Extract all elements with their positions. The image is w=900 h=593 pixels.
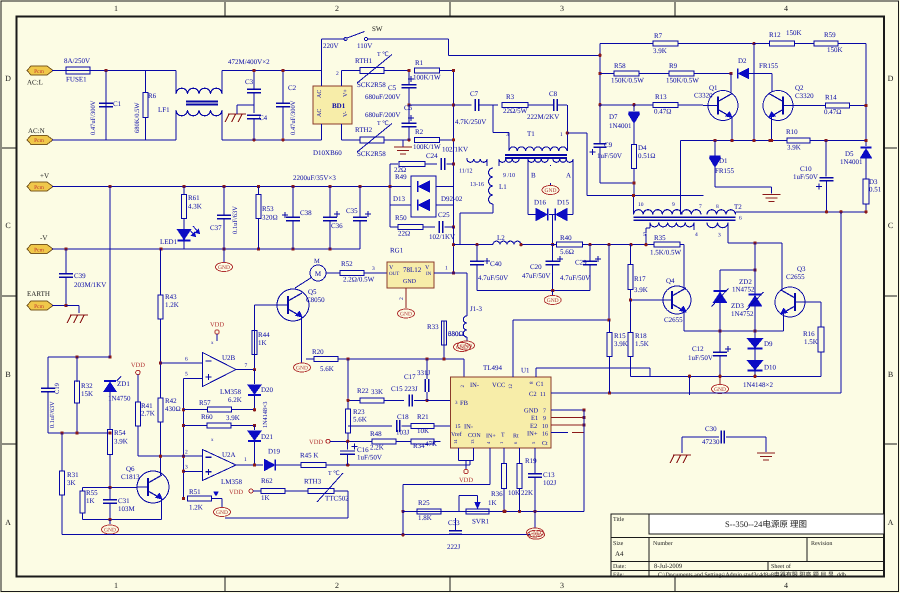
svg-text:D5: D5 bbox=[845, 150, 854, 158]
diode D5 bbox=[840, 148, 872, 179]
svg-text:Q3: Q3 bbox=[797, 265, 806, 273]
wire bbox=[493, 105, 587, 196]
svg-text:B: B bbox=[888, 370, 893, 379]
port -V bbox=[27, 234, 53, 254]
svg-text:T: T bbox=[501, 433, 505, 439]
svg-text:M: M bbox=[315, 270, 322, 278]
svg-text:2.7K: 2.7K bbox=[141, 410, 155, 418]
svg-text:1N4001: 1N4001 bbox=[609, 122, 632, 130]
power ground GND bbox=[102, 520, 119, 535]
svg-text:R55: R55 bbox=[86, 489, 98, 497]
svg-text:C2655: C2655 bbox=[786, 273, 805, 281]
svg-text:100K/1W: 100K/1W bbox=[413, 143, 441, 151]
svg-text:-V: -V bbox=[40, 234, 47, 242]
svg-text:SCK2R58: SCK2R58 bbox=[357, 150, 386, 158]
svg-text:C1: C1 bbox=[113, 100, 122, 108]
transistor Q3 bbox=[775, 265, 806, 317]
resistor R54 bbox=[108, 429, 128, 488]
capacitor C9 bbox=[590, 105, 622, 183]
svg-text:U1: U1 bbox=[521, 367, 530, 375]
power ground GND bbox=[712, 385, 729, 394]
resistor R31 bbox=[60, 433, 80, 535]
svg-text:47230: 47230 bbox=[702, 438, 720, 446]
svg-text:R15: R15 bbox=[614, 332, 626, 340]
svg-text:1N4750: 1N4750 bbox=[108, 395, 131, 403]
svg-text:1K: 1K bbox=[86, 497, 95, 505]
svg-text:R31: R31 bbox=[67, 471, 79, 479]
resistor R22 bbox=[346, 387, 404, 403]
wire bbox=[306, 358, 314, 360]
svg-text:C31: C31 bbox=[118, 497, 130, 505]
svg-text:680uF/200V: 680uF/200V bbox=[365, 111, 400, 119]
svg-text:Q4: Q4 bbox=[666, 277, 675, 285]
resistor R20 bbox=[312, 348, 464, 373]
svg-text:D16: D16 bbox=[534, 199, 547, 207]
zener ZD1 bbox=[104, 377, 131, 430]
resistor R21 bbox=[411, 413, 451, 435]
resistor R45 bbox=[300, 452, 470, 468]
wire -V rail bbox=[52, 247, 360, 250]
capacitor C33 bbox=[447, 518, 462, 551]
svg-text:D: D bbox=[5, 74, 11, 83]
ground bbox=[394, 140, 412, 154]
svg-text:1N4752: 1N4752 bbox=[731, 310, 754, 318]
svg-text:Pcm: Pcm bbox=[34, 247, 45, 253]
capacitor C30 bbox=[682, 425, 766, 453]
resistor D3 bbox=[863, 178, 882, 212]
wire bbox=[864, 44, 867, 146]
svg-text:22Ω: 22Ω bbox=[398, 230, 410, 238]
wire bbox=[399, 288, 406, 308]
svg-text:110V: 110V bbox=[357, 42, 372, 50]
port +V bbox=[27, 172, 53, 191]
power ground GND bbox=[527, 528, 544, 537]
capacitor C24 bbox=[426, 146, 468, 170]
svg-text:R1: R1 bbox=[415, 59, 424, 67]
svg-text:C: C bbox=[5, 221, 10, 230]
svg-text:1uF/50V: 1uF/50V bbox=[597, 152, 622, 160]
wire +V rail bbox=[52, 185, 390, 188]
svg-text:B: B bbox=[5, 370, 10, 379]
svg-text:1: 1 bbox=[560, 132, 563, 138]
svg-text:Ct: Ct bbox=[542, 441, 548, 447]
resistor R1 bbox=[413, 59, 454, 82]
svg-text:Pcm: Pcm bbox=[34, 185, 45, 191]
svg-text:D9: D9 bbox=[764, 340, 773, 348]
svg-text:2: 2 bbox=[399, 297, 405, 300]
svg-text:3K: 3K bbox=[67, 479, 76, 487]
wire bbox=[840, 212, 842, 393]
svg-text:12: 12 bbox=[508, 384, 514, 390]
svg-text:GND: GND bbox=[529, 531, 541, 537]
svg-text:8A/250V: 8A/250V bbox=[64, 57, 90, 65]
wire bbox=[403, 448, 490, 535]
resistor R17 bbox=[628, 245, 648, 300]
svg-text:3.9K: 3.9K bbox=[114, 438, 128, 446]
capacitor C19 bbox=[41, 383, 61, 433]
power VDD bbox=[229, 489, 253, 496]
wire pin2 bbox=[138, 455, 203, 457]
earth ground bbox=[67, 315, 88, 323]
svg-text:7: 7 bbox=[699, 204, 702, 210]
wire bbox=[409, 104, 454, 106]
svg-text:2: 2 bbox=[335, 581, 339, 590]
svg-text:R43: R43 bbox=[165, 293, 177, 301]
svg-text:C9: C9 bbox=[604, 141, 613, 149]
svg-text:C1813: C1813 bbox=[121, 473, 140, 481]
svg-text:R22: R22 bbox=[357, 387, 369, 395]
wire bbox=[694, 72, 733, 75]
svg-text:8-Jul-2009: 8-Jul-2009 bbox=[654, 563, 682, 570]
svg-text:R13: R13 bbox=[655, 93, 667, 101]
svg-text:3: 3 bbox=[506, 132, 509, 138]
svg-text:3.9K: 3.9K bbox=[226, 414, 240, 422]
resistor R59 bbox=[814, 31, 866, 54]
resistor R36 bbox=[491, 448, 520, 511]
junction bbox=[104, 69, 107, 72]
svg-text:Q5: Q5 bbox=[308, 288, 317, 296]
svg-text:FUSE1: FUSE1 bbox=[66, 76, 87, 84]
svg-text:GND: GND bbox=[456, 345, 468, 351]
svg-text:150K/0.5W: 150K/0.5W bbox=[666, 77, 699, 85]
svg-text:A: A bbox=[566, 172, 571, 180]
transistor Q2 bbox=[763, 84, 814, 121]
capacitor C7 bbox=[455, 90, 498, 126]
svg-text:1: 1 bbox=[499, 442, 504, 444]
wire bbox=[681, 139, 787, 142]
svg-text:U2B: U2B bbox=[222, 354, 236, 362]
svg-text:D1: D1 bbox=[719, 157, 728, 165]
svg-text:VDD: VDD bbox=[459, 477, 473, 484]
wire bbox=[629, 298, 663, 301]
port AC:L bbox=[27, 66, 53, 87]
svg-text:0.1uF/63V: 0.1uF/63V bbox=[49, 401, 56, 428]
wire bbox=[608, 245, 610, 320]
capacitor C31 bbox=[103, 488, 136, 520]
svg-text:D13: D13 bbox=[393, 195, 406, 203]
resistor R33 bbox=[427, 321, 464, 361]
svg-text:OUT: OUT bbox=[389, 271, 399, 277]
svg-text:3.9K: 3.9K bbox=[634, 286, 648, 294]
svg-text:4.7uF/50V: 4.7uF/50V bbox=[478, 274, 508, 282]
wire bbox=[48, 355, 110, 388]
wire bbox=[720, 268, 757, 271]
resistor R13 bbox=[600, 93, 703, 116]
svg-text:IN: IN bbox=[426, 271, 432, 277]
capacitor C38 bbox=[282, 187, 312, 250]
svg-text:R59: R59 bbox=[824, 31, 836, 39]
svg-text:R36: R36 bbox=[491, 490, 503, 498]
wire pin3 bbox=[184, 470, 203, 472]
svg-text:T1: T1 bbox=[527, 130, 535, 138]
svg-text:L2: L2 bbox=[497, 234, 505, 242]
svg-text:R20: R20 bbox=[312, 348, 324, 356]
svg-text:Pcm: Pcm bbox=[34, 69, 45, 75]
capacitor C25 bbox=[429, 211, 455, 241]
svg-text:1.5K/0.5W: 1.5K/0.5W bbox=[650, 249, 682, 257]
svg-text:EARTH: EARTH bbox=[27, 290, 50, 298]
svg-text:BD1: BD1 bbox=[332, 102, 346, 110]
svg-text:D: D bbox=[888, 74, 894, 83]
svg-text:GND: GND bbox=[714, 387, 726, 393]
svg-text:7: 7 bbox=[543, 409, 546, 415]
diode D20 bbox=[248, 370, 274, 428]
svg-text:10K: 10K bbox=[417, 427, 429, 435]
svg-text:Q6: Q6 bbox=[126, 465, 135, 473]
svg-text:C10: C10 bbox=[800, 165, 812, 173]
thermistor RTH1 bbox=[341, 51, 409, 89]
wire bbox=[549, 215, 556, 247]
wire bbox=[449, 54, 601, 56]
junction bbox=[281, 69, 284, 142]
resistor R50 bbox=[390, 214, 435, 238]
wire pin5 bbox=[184, 378, 203, 380]
svg-text:15: 15 bbox=[455, 424, 461, 430]
inductor LF1 bbox=[158, 71, 222, 140]
svg-text:C18: C18 bbox=[397, 413, 409, 421]
svg-text:J1-3: J1-3 bbox=[470, 305, 483, 313]
svg-text:C17: C17 bbox=[404, 373, 416, 381]
svg-text:C25: C25 bbox=[438, 211, 450, 219]
svg-text:R54: R54 bbox=[114, 429, 126, 437]
svg-text:Vref: Vref bbox=[451, 431, 462, 438]
wire Q6 collector bbox=[159, 455, 162, 476]
wire bbox=[680, 245, 684, 288]
capacitor C15 bbox=[391, 385, 429, 406]
diode D15 bbox=[555, 199, 573, 221]
svg-text:Number: Number bbox=[653, 540, 673, 547]
svg-text:Date:: Date: bbox=[613, 564, 626, 570]
wire bbox=[600, 181, 636, 195]
svg-text:9: 9 bbox=[543, 416, 546, 422]
resistor R40 bbox=[557, 234, 648, 256]
wire bbox=[730, 74, 732, 93]
svg-text:RTH3: RTH3 bbox=[304, 478, 322, 486]
svg-text:1K: 1K bbox=[488, 499, 497, 507]
svg-text:R9: R9 bbox=[669, 62, 678, 70]
svg-text:150K: 150K bbox=[786, 29, 802, 37]
svg-text:R7: R7 bbox=[654, 32, 663, 40]
svg-text:R45 K: R45 K bbox=[300, 452, 318, 460]
svg-text:FB: FB bbox=[460, 400, 469, 407]
svg-text:R21: R21 bbox=[417, 413, 429, 421]
wire bbox=[680, 141, 682, 196]
diode LED1 bbox=[160, 219, 200, 250]
bridge rectifier BD1 bbox=[313, 86, 352, 157]
svg-text:1.2K: 1.2K bbox=[189, 504, 203, 512]
svg-text:33K: 33K bbox=[371, 388, 383, 396]
regulator RG1 78L12 bbox=[387, 247, 434, 289]
svg-text:GND: GND bbox=[104, 528, 116, 534]
diode D10 bbox=[743, 361, 777, 390]
svg-text:VDD: VDD bbox=[309, 439, 323, 446]
wire bbox=[390, 187, 454, 206]
ground bbox=[757, 453, 775, 460]
wire pins 7 9 10 16 bbox=[551, 408, 586, 432]
svg-text:100K/1W: 100K/1W bbox=[413, 74, 441, 82]
svg-text:C40: C40 bbox=[490, 260, 502, 268]
wire bbox=[105, 71, 107, 140]
wire bbox=[598, 44, 601, 107]
svg-text:222M/2KV: 222M/2KV bbox=[527, 113, 559, 121]
wire bbox=[90, 70, 146, 72]
wire bbox=[108, 187, 111, 359]
resistor R53 bbox=[256, 187, 278, 250]
svg-text:47uF/50V: 47uF/50V bbox=[522, 272, 550, 280]
resistor R61 bbox=[182, 187, 202, 219]
resistor R60 bbox=[184, 413, 257, 428]
transformer T2 drive winding bbox=[528, 159, 573, 215]
svg-text:3: 3 bbox=[372, 266, 375, 272]
svg-text:VDD: VDD bbox=[131, 362, 145, 369]
svg-text:203M/1KV: 203M/1KV bbox=[74, 281, 106, 289]
svg-text:GND: GND bbox=[296, 366, 308, 372]
svg-text:D15: D15 bbox=[557, 199, 570, 207]
svg-text:SVR1: SVR1 bbox=[472, 518, 490, 526]
svg-text:Rt: Rt bbox=[513, 434, 519, 440]
resistor R25 bbox=[403, 499, 459, 522]
power ground GND bbox=[216, 249, 233, 272]
wire bbox=[646, 234, 654, 245]
svg-text:R53: R53 bbox=[262, 205, 274, 213]
svg-text:LF1: LF1 bbox=[158, 106, 170, 114]
svg-text:GND: GND bbox=[524, 408, 538, 415]
capacitor C5 bbox=[365, 71, 417, 106]
potentiometer SVR1 bbox=[459, 496, 506, 526]
wire bbox=[52, 70, 66, 72]
svg-text:1uF/50V: 1uF/50V bbox=[688, 354, 713, 362]
svg-text:0.1uF/63V: 0.1uF/63V bbox=[232, 206, 239, 234]
svg-text:220V: 220V bbox=[323, 42, 339, 50]
svg-text:VDD: VDD bbox=[229, 489, 243, 496]
wire bbox=[452, 69, 455, 229]
svg-text:0.47Ω: 0.47Ω bbox=[824, 108, 841, 116]
op-amp U2B bbox=[185, 341, 242, 396]
svg-text:C24: C24 bbox=[426, 152, 438, 160]
power VDD bbox=[131, 362, 145, 375]
wire pin7 bbox=[236, 363, 256, 371]
resistor R32 bbox=[75, 357, 94, 433]
svg-text:C30: C30 bbox=[705, 425, 717, 433]
inductor J1-3 bbox=[448, 305, 483, 341]
svg-text:102/1KV: 102/1KV bbox=[429, 233, 455, 241]
resistor R7 bbox=[600, 32, 754, 55]
wire bbox=[477, 289, 590, 292]
svg-text:3: 3 bbox=[718, 233, 721, 239]
svg-text:103M: 103M bbox=[118, 505, 136, 513]
svg-text:Title: Title bbox=[613, 516, 624, 523]
wire bbox=[753, 44, 755, 141]
wire bbox=[475, 243, 556, 246]
power VDD bbox=[210, 322, 224, 342]
wire bbox=[684, 302, 821, 331]
svg-text:D21: D21 bbox=[261, 433, 274, 441]
svg-text:6: 6 bbox=[185, 357, 188, 363]
transformer T1 bbox=[505, 130, 567, 158]
diode D7 bbox=[609, 105, 640, 145]
wire bbox=[52, 304, 79, 313]
zener ZD2 bbox=[712, 270, 756, 331]
svg-text:C35: C35 bbox=[346, 207, 358, 215]
resistor R57 bbox=[184, 396, 257, 412]
svg-text:C5: C5 bbox=[388, 84, 397, 92]
svg-text:C19: C19 bbox=[54, 383, 61, 394]
svg-text:T ℃: T ℃ bbox=[377, 51, 389, 58]
wire bbox=[736, 210, 868, 213]
wire bbox=[534, 511, 536, 528]
resistor R18 bbox=[628, 300, 649, 376]
svg-text:4.7K/250V: 4.7K/250V bbox=[455, 118, 486, 126]
svg-text:D19: D19 bbox=[268, 448, 281, 456]
svg-text:4.7uF/50V: 4.7uF/50V bbox=[560, 274, 590, 282]
wire bbox=[108, 486, 137, 489]
svg-text:R16: R16 bbox=[803, 330, 815, 338]
IC U1 TL494 bbox=[451, 364, 552, 448]
resistor R52 bbox=[326, 260, 387, 284]
capacitor C35 bbox=[346, 187, 371, 250]
svg-text:R57: R57 bbox=[199, 399, 211, 407]
svg-text:R18: R18 bbox=[635, 332, 647, 340]
wire bbox=[715, 187, 772, 194]
svg-text:B: B bbox=[531, 172, 536, 180]
fuse FUSE1 bbox=[64, 57, 90, 84]
wire bbox=[52, 139, 146, 141]
capacitor C17 bbox=[404, 359, 431, 400]
svg-text:5.6K: 5.6K bbox=[353, 416, 367, 424]
svg-text:4: 4 bbox=[784, 4, 788, 13]
svg-text:R6: R6 bbox=[148, 92, 157, 100]
svg-text:R52: R52 bbox=[341, 260, 353, 268]
svg-text:C38: C38 bbox=[300, 209, 312, 217]
transistor Q4 bbox=[663, 277, 691, 324]
transistor Q5 bbox=[277, 288, 325, 321]
svg-text:R35: R35 bbox=[654, 234, 666, 242]
svg-text:R60: R60 bbox=[201, 413, 213, 421]
svg-text:47K: 47K bbox=[425, 440, 437, 448]
svg-text:D10XB60: D10XB60 bbox=[313, 149, 342, 157]
power VDD bbox=[309, 439, 330, 446]
svg-text:TL494: TL494 bbox=[483, 364, 503, 372]
thermistor RTH2 bbox=[341, 120, 409, 158]
svg-text:FR155: FR155 bbox=[715, 167, 735, 175]
svg-text:C37: C37 bbox=[210, 224, 222, 232]
svg-text:Revision: Revision bbox=[811, 541, 832, 547]
svg-text:14: 14 bbox=[453, 439, 458, 444]
capacitor C20 bbox=[522, 245, 563, 291]
wire bbox=[336, 71, 341, 140]
resistor R35 bbox=[650, 234, 682, 257]
svg-text:22K: 22K bbox=[521, 489, 533, 497]
resistor R23 bbox=[346, 359, 367, 441]
resistor R55 bbox=[80, 488, 110, 520]
capacitor C16 bbox=[340, 441, 382, 465]
svg-text:C7: C7 bbox=[470, 90, 479, 98]
wire VCC pin12 bbox=[513, 318, 611, 377]
capacitor C13 bbox=[528, 448, 557, 511]
wire pin6 bbox=[161, 362, 203, 364]
svg-text:V: V bbox=[425, 265, 430, 271]
capacitor C37 bbox=[210, 187, 239, 250]
svg-text:102J: 102J bbox=[543, 479, 557, 487]
label 2200uF/35V*3 bbox=[293, 174, 336, 182]
svg-text:1N4148×3: 1N4148×3 bbox=[262, 401, 269, 428]
svg-text:C13: C13 bbox=[543, 471, 555, 479]
wire bbox=[321, 71, 323, 140]
svg-text:AC:L: AC:L bbox=[27, 79, 43, 87]
svg-text:GND: GND bbox=[545, 188, 557, 194]
svg-text:AC: AC bbox=[317, 109, 323, 117]
svg-text:4: 4 bbox=[784, 581, 788, 590]
